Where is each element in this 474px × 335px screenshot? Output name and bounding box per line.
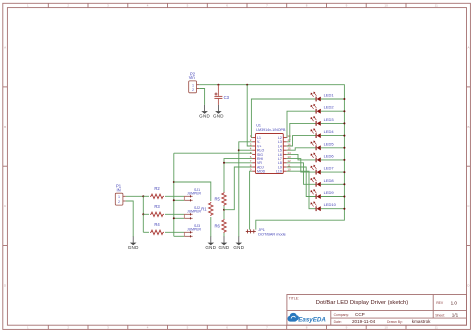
junction LED3 anode on V+ bus bbox=[343, 122, 345, 124]
ground at P2 bbox=[199, 105, 210, 119]
svg-text:Date:: Date: bbox=[334, 320, 342, 324]
wire R6 to ground bbox=[223, 233, 225, 237]
wire input tie column bbox=[142, 196, 144, 232]
svg-text:R2: R2 bbox=[154, 186, 160, 191]
svg-text:10: 10 bbox=[384, 326, 388, 330]
ground at P1 bbox=[128, 236, 139, 250]
junction R3 left bbox=[142, 213, 144, 215]
svg-text:B: B bbox=[467, 125, 469, 129]
LED LED5 bbox=[287, 141, 345, 150]
wire signal bus column bbox=[173, 153, 175, 236]
wire V+ to U1 pin 3 bbox=[247, 85, 252, 146]
svg-text:A: A bbox=[4, 46, 6, 50]
svg-text:R3: R3 bbox=[154, 204, 160, 209]
svg-text:GND: GND bbox=[128, 245, 139, 250]
svg-text:R4: R4 bbox=[154, 222, 160, 227]
ground at C3 bbox=[213, 105, 224, 119]
wire divider tap to U1 ADJ pin 8 bbox=[224, 167, 252, 210]
junction LED4 anode on V+ bus bbox=[343, 135, 345, 137]
svg-text:R5: R5 bbox=[214, 197, 220, 202]
svg-text:GND: GND bbox=[219, 245, 230, 250]
connector P1 IN bbox=[115, 183, 125, 205]
junction V+ branch bbox=[246, 84, 248, 86]
svg-text:GND: GND bbox=[205, 245, 216, 250]
wire to R1 bbox=[174, 182, 211, 201]
svg-text:LED3: LED3 bbox=[324, 117, 335, 122]
capacitor C3 bbox=[214, 85, 229, 105]
svg-text:LED9: LED9 bbox=[324, 190, 335, 195]
ground at U1 V- bbox=[233, 236, 244, 250]
wire U1 RLO to ground column bbox=[239, 149, 252, 151]
svg-text:LED5: LED5 bbox=[324, 141, 335, 146]
svg-text:TITLE:: TITLE: bbox=[289, 296, 299, 300]
LED LED8 bbox=[287, 163, 345, 187]
svg-text:11: 11 bbox=[435, 4, 438, 8]
svg-text:LED10: LED10 bbox=[324, 202, 337, 207]
resistor R6 bbox=[214, 219, 226, 233]
junction ADJ tap bbox=[223, 209, 225, 211]
svg-text:L10: L10 bbox=[276, 170, 282, 174]
svg-text:IN: IN bbox=[117, 188, 121, 193]
svg-text:LM3914x-1/NOPB: LM3914x-1/NOPB bbox=[256, 128, 286, 132]
wire to R2 bbox=[143, 195, 149, 197]
resistor R3 bbox=[150, 204, 164, 217]
svg-text:EasyEDA: EasyEDA bbox=[298, 317, 326, 324]
LED LED3 bbox=[287, 116, 345, 141]
junction SJ1 pin2 bbox=[173, 199, 175, 201]
wire U1 V- to ground bbox=[239, 142, 252, 237]
svg-text:A: A bbox=[467, 46, 469, 50]
wire R1 to ground bbox=[210, 217, 212, 237]
junction LED5 anode on V+ bus bbox=[343, 147, 345, 149]
svg-text:C3: C3 bbox=[224, 95, 230, 100]
junction R1 branch bbox=[173, 181, 175, 183]
op-amp U1 LM3914 bbox=[250, 124, 291, 174]
LED LED7 bbox=[287, 159, 345, 175]
wire R2 to SJ1 bbox=[165, 195, 184, 197]
wire P1 pin2 to ground bbox=[126, 201, 134, 237]
junction C3 tap bbox=[217, 84, 219, 86]
ground at R1 bbox=[205, 236, 216, 250]
wire U1 MOD pin 9 to JP1 bbox=[250, 171, 253, 229]
wire R5 to R6 bbox=[223, 206, 225, 219]
svg-text:R6: R6 bbox=[214, 224, 220, 229]
wire to R3 bbox=[143, 213, 149, 215]
wire bus to SJ3 pin2 bbox=[174, 235, 185, 237]
wire P2 pin2 to ground bbox=[199, 89, 204, 105]
LED LED1 bbox=[251, 92, 344, 138]
svg-text:GND: GND bbox=[233, 245, 244, 250]
jumper JP1 DOT/BAR mode bbox=[246, 228, 286, 236]
junction VR tap bbox=[223, 162, 225, 164]
wire to R4 bbox=[143, 231, 149, 233]
junction R2 left bbox=[142, 195, 144, 197]
wire U1 RHI to R5 bbox=[224, 159, 252, 192]
svg-text:MOD: MOD bbox=[257, 170, 266, 174]
resistor R5 bbox=[214, 192, 226, 206]
junction LED10 anode on V+ bus bbox=[343, 208, 345, 210]
junction LED8 anode on V+ bus bbox=[343, 183, 345, 185]
svg-text:10: 10 bbox=[384, 4, 388, 8]
resistor R2 bbox=[150, 186, 164, 199]
svg-text:2019-11-04: 2019-11-04 bbox=[352, 319, 376, 324]
connector P2 Vin bbox=[189, 72, 200, 93]
LED LED2 bbox=[287, 104, 345, 137]
svg-text:GND: GND bbox=[213, 114, 224, 119]
svg-text:R1: R1 bbox=[201, 207, 207, 212]
svg-text:1.0: 1.0 bbox=[451, 300, 458, 305]
wire R4 to SJ3 bbox=[165, 231, 184, 233]
svg-text:Vin: Vin bbox=[189, 75, 196, 80]
svg-text:B: B bbox=[4, 125, 6, 129]
svg-text:1: 1 bbox=[118, 195, 120, 199]
LED LED10 bbox=[287, 171, 345, 211]
jumper SJ2 bbox=[184, 206, 201, 220]
svg-text:LED6: LED6 bbox=[324, 153, 335, 158]
junction RLO bbox=[238, 149, 240, 151]
junction LED9 anode on V+ bus bbox=[343, 196, 345, 198]
title block bbox=[287, 295, 467, 326]
svg-text:JUMPER: JUMPER bbox=[187, 228, 201, 232]
svg-text:2: 2 bbox=[118, 200, 120, 204]
svg-text:LED4: LED4 bbox=[324, 129, 335, 134]
wire P1 pin1 to divider bbox=[126, 195, 144, 197]
resistor R4 bbox=[150, 222, 164, 235]
svg-text:DOT/BAR mode: DOT/BAR mode bbox=[258, 232, 285, 236]
svg-text:Company:: Company: bbox=[334, 313, 350, 317]
svg-text:LED7: LED7 bbox=[324, 166, 335, 171]
svg-text:Sheet:: Sheet: bbox=[435, 313, 445, 317]
svg-text:LED1: LED1 bbox=[324, 93, 335, 98]
wire R3 to SJ2 bbox=[165, 213, 184, 215]
junction LED2 anode on V+ bus bbox=[343, 110, 345, 112]
svg-text:Drawn By:: Drawn By: bbox=[387, 320, 403, 324]
svg-text:kmastrok: kmastrok bbox=[412, 319, 431, 324]
svg-text:1: 1 bbox=[192, 84, 194, 88]
jumper SJ3 bbox=[184, 224, 201, 238]
svg-text:JUMPER: JUMPER bbox=[187, 210, 201, 214]
ground at R6 bbox=[219, 236, 230, 250]
svg-text:JUMPER: JUMPER bbox=[187, 192, 201, 196]
resistor R1 bbox=[201, 202, 213, 216]
svg-text:LED2: LED2 bbox=[324, 105, 335, 110]
junction LED1 anode on V+ bus bbox=[343, 98, 345, 100]
svg-text:LED8: LED8 bbox=[324, 178, 335, 183]
junction LED7 anode on V+ bus bbox=[343, 171, 345, 173]
LED LED9 bbox=[287, 167, 345, 199]
EasyEDA logo bbox=[288, 313, 327, 324]
junction SJ2 pin2 bbox=[173, 217, 175, 219]
svg-text:11: 11 bbox=[435, 326, 438, 330]
svg-text:2: 2 bbox=[192, 88, 194, 92]
svg-text:REV: REV bbox=[436, 301, 444, 305]
junction LED6 anode on V+ bus bbox=[343, 159, 345, 161]
wire signal to U1 SIG pin 5 bbox=[174, 152, 252, 154]
jumper SJ1 bbox=[184, 188, 201, 202]
wire V+ from P2 to LED anode bus and mode jumper bbox=[199, 85, 344, 230]
svg-text:1/1: 1/1 bbox=[452, 312, 459, 317]
LED LED4 bbox=[287, 129, 345, 146]
wire bus to SJ2 pin2 bbox=[174, 217, 185, 219]
svg-text:GND: GND bbox=[199, 114, 210, 119]
wire U1 VR to divider bbox=[224, 162, 252, 164]
svg-text:CCP: CCP bbox=[355, 312, 365, 317]
LED LED6 bbox=[287, 153, 345, 162]
wire bus to SJ1 pin2 bbox=[174, 199, 185, 201]
svg-text:Dot/Bar LED Display Driver (sk: Dot/Bar LED Display Driver (sketch) bbox=[316, 300, 409, 306]
